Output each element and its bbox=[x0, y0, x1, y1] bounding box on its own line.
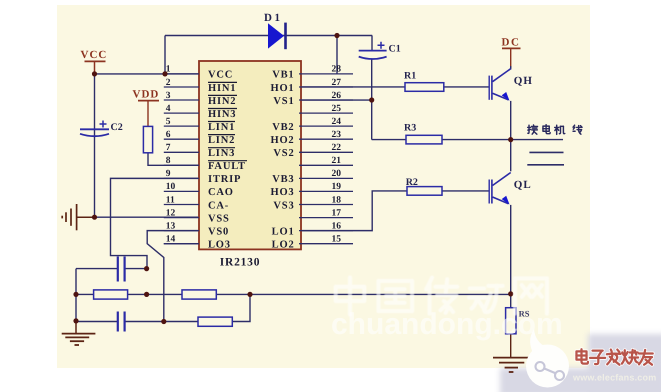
resistor middle of sense row bbox=[182, 290, 216, 299]
pin 16 stub bbox=[299, 221, 353, 231]
pin 11 stub bbox=[164, 195, 199, 205]
watermark zhongguo chuandong wang bbox=[336, 278, 547, 315]
svg-text:9: 9 bbox=[166, 169, 171, 179]
svg-text:CA-: CA- bbox=[208, 200, 229, 211]
svg-text:10: 10 bbox=[166, 182, 176, 192]
svg-text:23: 23 bbox=[332, 130, 342, 140]
wire pin 26 VS1 to C1 node bbox=[299, 99, 372, 101]
wire VCC rail down to VSS row bbox=[94, 74, 96, 217]
node motor node bbox=[508, 137, 513, 142]
pin 18 stub bbox=[299, 195, 353, 205]
svg-text:CAO: CAO bbox=[208, 187, 234, 198]
svg-text:8: 8 bbox=[166, 156, 171, 166]
svg-text:IR2130: IR2130 bbox=[220, 257, 261, 269]
pin label VS1 bbox=[273, 96, 294, 107]
node filter node B bbox=[144, 292, 149, 297]
svg-text:VDD: VDD bbox=[133, 89, 160, 101]
svg-text:LIN3: LIN3 bbox=[208, 148, 235, 159]
pin 12 stub bbox=[164, 208, 199, 218]
wire VSS row to pin 12 bbox=[95, 216, 200, 218]
wire sense node to RS resistor bbox=[510, 294, 512, 308]
svg-text:VS3: VS3 bbox=[273, 200, 294, 211]
pin 23 stub bbox=[299, 130, 353, 140]
node top rail node bbox=[334, 33, 339, 38]
pin 13 stub bbox=[164, 221, 199, 231]
svg-text:LIN2: LIN2 bbox=[208, 135, 235, 146]
wire pin 28 riser from top rail bbox=[336, 36, 338, 74]
node VS1 node bbox=[369, 97, 374, 102]
ground bottom left bbox=[62, 321, 96, 345]
svg-text:C1: C1 bbox=[389, 44, 401, 55]
pin 14 stub bbox=[164, 234, 199, 244]
svg-text:D1: D1 bbox=[264, 12, 282, 24]
wire R3 row to motor terminal bbox=[372, 139, 563, 141]
ground at VSS (left facing) bbox=[62, 204, 94, 230]
svg-text:24: 24 bbox=[332, 117, 342, 127]
wire pin 1 riser to top rail bbox=[164, 36, 166, 74]
pin label VB1 bbox=[272, 70, 294, 81]
wire upper capacitor row bbox=[76, 268, 147, 270]
svg-text:19: 19 bbox=[332, 182, 342, 192]
pin label LIN2 bbox=[208, 135, 235, 146]
svg-text:R3: R3 bbox=[404, 123, 416, 134]
pin 28 stub bbox=[299, 65, 353, 75]
pin label HIN3 bbox=[208, 109, 237, 120]
ground bottom right under RS bbox=[493, 358, 530, 372]
wire bottom sense row through resistors to QL emitter bbox=[76, 293, 511, 295]
resistor left of sense row bbox=[94, 290, 128, 299]
pin 3 stub bbox=[164, 91, 199, 101]
svg-text:VSS: VSS bbox=[208, 213, 230, 224]
pin label HIN1 bbox=[208, 82, 237, 93]
wire VCC node to pin 1 bbox=[95, 73, 200, 75]
pin 25 stub bbox=[299, 104, 353, 114]
elecfans logo text (Chinese, red) bbox=[576, 349, 652, 364]
svg-text:22: 22 bbox=[332, 143, 342, 153]
svg-text:LIN1: LIN1 bbox=[208, 122, 235, 133]
wire pin 14 LO3 stub bbox=[164, 243, 199, 245]
pin label HO2 bbox=[271, 135, 295, 146]
svg-text:HIN2: HIN2 bbox=[208, 96, 236, 107]
node VCC node bbox=[92, 71, 97, 76]
svg-text:DC: DC bbox=[502, 36, 521, 48]
pin 21 stub bbox=[299, 156, 353, 166]
pin 20 stub bbox=[299, 169, 353, 179]
wire QL emitter down to sense node bbox=[510, 205, 512, 294]
pin 9 stub bbox=[164, 169, 199, 179]
pin 10 stub bbox=[164, 182, 199, 192]
svg-text:18: 18 bbox=[332, 195, 342, 205]
pin label HO3 bbox=[271, 187, 295, 198]
wire VS1 node down to R3 row bbox=[371, 100, 373, 140]
svg-text:15: 15 bbox=[332, 234, 342, 244]
wire QH emitter down to motor node bbox=[510, 101, 512, 140]
svg-text:www.elecfans.com: www.elecfans.com bbox=[572, 373, 656, 383]
pin 4 stub bbox=[164, 104, 199, 114]
VCC power symbol bbox=[81, 49, 108, 74]
svg-text:LO2: LO2 bbox=[272, 239, 295, 250]
pin label VSS bbox=[208, 213, 230, 224]
pin label VB2 bbox=[272, 122, 294, 133]
pin 17 stub bbox=[299, 208, 353, 218]
diode D1 bbox=[264, 12, 287, 49]
svg-text:VB1: VB1 bbox=[272, 70, 294, 81]
capacitor C1 polarized bootstrap bbox=[359, 42, 401, 59]
svg-text:VB2: VB2 bbox=[272, 122, 294, 133]
capacitor C2 polarized bbox=[80, 121, 123, 137]
svg-text:VCC: VCC bbox=[81, 49, 108, 61]
wire C1 bottom lead to pin 26 node bbox=[371, 58, 373, 100]
wire left rail down to ground bbox=[75, 269, 77, 321]
svg-text:HO2: HO2 bbox=[271, 135, 295, 146]
transistor QH high side NPN bbox=[489, 69, 533, 101]
op-amp U1 IR2130 driver IC body bbox=[199, 61, 301, 249]
pin 7 stub bbox=[164, 143, 199, 153]
wire motor node down to QL collector bbox=[510, 140, 512, 172]
pin 22 stub bbox=[299, 143, 353, 153]
svg-text:28: 28 bbox=[332, 65, 342, 75]
pin 1 stub bbox=[164, 65, 199, 75]
wire DC stub down to QH collector bbox=[510, 48, 512, 68]
pin 2 stub bbox=[164, 78, 199, 88]
wire QH collector riser bbox=[510, 66, 512, 70]
resistor lower sense branch bbox=[198, 317, 232, 326]
transistor QL low side NPN bbox=[489, 173, 532, 205]
svg-text:21: 21 bbox=[332, 156, 342, 166]
pin 15 stub bbox=[299, 234, 353, 244]
svg-text:VCC: VCC bbox=[208, 70, 233, 81]
svg-text:FAULT: FAULT bbox=[208, 161, 246, 172]
capacitor upper RC filter bbox=[118, 257, 125, 282]
pin 6 stub bbox=[164, 130, 199, 140]
pin 26 stub bbox=[299, 91, 353, 101]
pin label HO1 bbox=[271, 83, 295, 94]
pin label CA- bbox=[208, 200, 229, 211]
svg-text:chuandong.com: chuandong.com bbox=[331, 308, 563, 341]
svg-text:LO3: LO3 bbox=[208, 239, 231, 250]
wire lower resistor branch to node bbox=[164, 294, 250, 321]
pin 5 stub bbox=[164, 117, 199, 127]
pin 27 stub bbox=[299, 78, 353, 88]
svg-text:13: 13 bbox=[166, 221, 176, 231]
motor terminal line 3 bbox=[527, 164, 564, 166]
pin label LO1 bbox=[272, 226, 295, 237]
svg-text:12: 12 bbox=[166, 208, 176, 218]
pin label LO3 bbox=[208, 239, 231, 250]
capacitor lower RC filter bbox=[118, 312, 125, 332]
svg-text:VS1: VS1 bbox=[273, 96, 294, 107]
IC part number IR2130 bbox=[220, 257, 261, 269]
node left rail node B bbox=[73, 318, 78, 323]
motor terminal line 2 bbox=[529, 151, 563, 153]
node left rail node A bbox=[73, 292, 78, 297]
label connect-motor-wire (Chinese) bbox=[528, 125, 582, 135]
svg-text:C2: C2 bbox=[111, 122, 123, 133]
node pin1 node bbox=[162, 71, 167, 76]
svg-text:20: 20 bbox=[332, 169, 342, 179]
pin label VS3 bbox=[273, 200, 294, 211]
svg-text:26: 26 bbox=[332, 91, 342, 101]
wire RS resistor to ground bbox=[510, 334, 512, 357]
node sense row node bbox=[247, 292, 252, 297]
node lower branch node bbox=[161, 319, 166, 324]
resistor RS current sense bbox=[506, 308, 530, 334]
pin label VB3 bbox=[272, 174, 294, 185]
svg-text:HIN1: HIN1 bbox=[208, 83, 236, 94]
svg-text:6: 6 bbox=[166, 130, 171, 140]
svg-text:16: 16 bbox=[332, 221, 342, 231]
svg-text:HIN3: HIN3 bbox=[208, 109, 236, 120]
svg-text:LO1: LO1 bbox=[272, 226, 295, 237]
svg-text:ITRIP: ITRIP bbox=[208, 174, 241, 185]
wire pin 27 HO1 to R1 to QH base bbox=[299, 86, 489, 88]
svg-text:R1: R1 bbox=[404, 71, 416, 82]
svg-text:QL: QL bbox=[514, 179, 532, 191]
svg-text:HO3: HO3 bbox=[271, 187, 295, 198]
resistor R3 bbox=[404, 123, 442, 144]
pin label VS0 bbox=[208, 226, 229, 237]
svg-text:3: 3 bbox=[166, 91, 171, 101]
pin label LIN3 bbox=[208, 148, 235, 159]
svg-text:17: 17 bbox=[332, 208, 342, 218]
elecfans logo ball bbox=[526, 329, 569, 388]
svg-text:11: 11 bbox=[166, 195, 175, 205]
wire pin 16 LO1 up to R2 to QL base bbox=[299, 191, 489, 231]
svg-text:2: 2 bbox=[166, 78, 171, 88]
node sense node bbox=[508, 291, 513, 296]
pin label FAULT bbox=[208, 161, 247, 172]
resistor R1 bbox=[404, 71, 444, 92]
wire pin 9 ITRIP to RC filter bbox=[111, 178, 200, 268]
svg-text:VB3: VB3 bbox=[272, 174, 294, 185]
pin 19 stub bbox=[299, 182, 353, 192]
svg-text:25: 25 bbox=[332, 104, 342, 114]
pin label HIN2 bbox=[208, 95, 237, 106]
pin 8 stub bbox=[164, 156, 199, 166]
wire top rail from pin1 riser through D1 to C1 bbox=[165, 35, 372, 37]
svg-text:5: 5 bbox=[166, 117, 171, 127]
DC power symbol bbox=[502, 36, 521, 48]
pin 24 stub bbox=[299, 117, 353, 127]
wire pin 13 VS0 dogleg down to sense network bbox=[147, 231, 199, 322]
svg-text:4: 4 bbox=[166, 104, 171, 114]
pin label CAO bbox=[208, 187, 234, 198]
svg-text:14: 14 bbox=[166, 234, 176, 244]
pin label VCC bbox=[208, 70, 233, 81]
pin label LO2 bbox=[272, 239, 295, 250]
node filter node A bbox=[144, 266, 149, 271]
svg-text:VS0: VS0 bbox=[208, 226, 229, 237]
wire VDD bar to resistor bbox=[147, 101, 149, 127]
wire lower capacitor row bbox=[76, 321, 164, 323]
wire C1 top lead bbox=[371, 36, 373, 51]
resistor on VDD to FAULT pin bbox=[143, 126, 152, 152]
svg-text:HO1: HO1 bbox=[271, 83, 295, 94]
pin label ITRIP bbox=[208, 174, 241, 185]
pin label LIN1 bbox=[208, 122, 235, 133]
svg-text:R2: R2 bbox=[406, 177, 418, 188]
VDD power symbol bbox=[133, 89, 160, 101]
svg-text:7: 7 bbox=[166, 143, 171, 153]
resistor R2 bbox=[406, 177, 442, 195]
node VSS node bbox=[92, 215, 97, 220]
pin label VS2 bbox=[273, 148, 294, 159]
svg-text:VS2: VS2 bbox=[273, 148, 294, 159]
wire VDD resistor to pin 8 FAULT bbox=[148, 153, 199, 166]
svg-text:27: 27 bbox=[332, 78, 342, 88]
svg-text:QH: QH bbox=[514, 75, 533, 87]
